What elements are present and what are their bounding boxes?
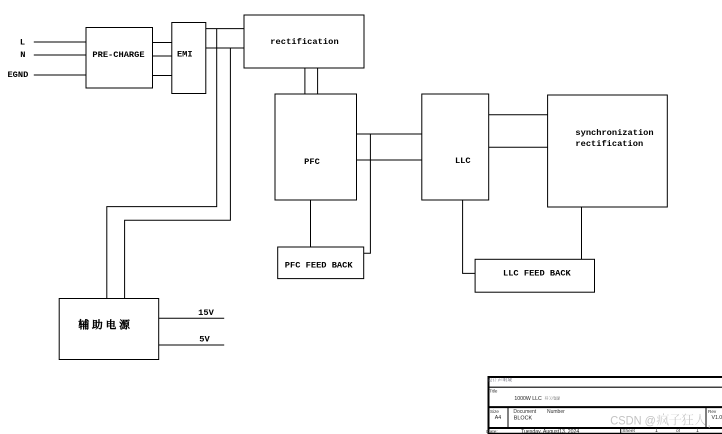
wire PRE-CHARGE to EMI line EGND: [153, 75, 172, 77]
wire PRE-CHARGE to EMI line L: [153, 42, 172, 44]
svg-text:15V: 15V: [198, 308, 214, 318]
svg-text:CSDN @: CSDN @: [610, 413, 656, 427]
svg-text:L: L: [20, 38, 25, 48]
block EMI: [172, 23, 206, 94]
block auxiliary power 辅助电源: [59, 299, 159, 360]
block rectification: [244, 15, 364, 68]
svg-text:Sheet: Sheet: [622, 428, 635, 434]
svg-text:N: N: [20, 50, 25, 60]
svg-text:Tuesday, August13, 2024: Tuesday, August13, 2024: [521, 429, 579, 434]
svg-text:PFC FEED BACK: PFC FEED BACK: [285, 261, 354, 271]
wire LLC to synchronization rectification top: [489, 114, 548, 116]
svg-text:EMI: EMI: [177, 50, 193, 60]
block synchronization rectification: [548, 95, 668, 207]
wire PRE-CHARGE to EMI line N: [153, 55, 172, 57]
svg-text:rectification: rectification: [270, 37, 338, 47]
svg-text:A4: A4: [495, 415, 501, 421]
wire synchronization rectification to LLC FEED BACK: [581, 207, 583, 259]
wire PFC to LLC bottom: [357, 159, 422, 161]
block PRE-CHARGE: [86, 28, 153, 89]
wire rectification to PFC left: [304, 68, 306, 94]
wire LLC bottom to LLC FEED BACK: [463, 200, 476, 273]
svg-text:of: of: [676, 428, 681, 434]
svg-text:Document: Document: [513, 409, 536, 415]
svg-text:synchronization: synchronization: [575, 128, 653, 138]
svg-text:,: ,: [708, 417, 711, 429]
wire 5V output: [159, 344, 225, 346]
svg-text:Size: Size: [490, 409, 499, 414]
wire L input: [34, 41, 86, 43]
title block header text 设计声明域: [488, 378, 512, 382]
title block frame: [488, 377, 722, 434]
wire PFC bottom to PFC FEED BACK: [310, 200, 312, 247]
svg-text:LLC FEED BACK: LLC FEED BACK: [503, 269, 572, 279]
svg-text:5V: 5V: [199, 335, 210, 345]
wire EGND input: [34, 74, 86, 76]
svg-text:Title: Title: [489, 388, 498, 393]
watermark 疯子狂人: [657, 413, 706, 425]
block PFC FEED BACK: [278, 247, 364, 279]
block LLC FEED BACK: [475, 259, 594, 292]
svg-text:PFC: PFC: [304, 157, 320, 167]
svg-text:1: 1: [696, 428, 699, 434]
wire N input: [34, 54, 86, 56]
block PFC: [275, 94, 357, 200]
block LLC: [422, 94, 489, 200]
svg-text:PRE-CHARGE: PRE-CHARGE: [92, 50, 144, 60]
wire 15V output: [159, 317, 225, 319]
svg-text:Number: Number: [547, 409, 565, 415]
svg-text:Rev: Rev: [708, 409, 717, 414]
wire PFC to LLC top: [357, 133, 422, 135]
svg-text:1: 1: [655, 428, 658, 434]
svg-text:EGND: EGND: [7, 70, 28, 80]
wire LLC to synchronization rectification bottom: [489, 146, 548, 148]
svg-text:rectification: rectification: [575, 139, 643, 149]
wire tap1 vertical from AC bus to aux: [107, 29, 217, 299]
svg-text:Date:: Date:: [486, 429, 497, 434]
svg-text:1000W LLC: 1000W LLC: [514, 396, 542, 402]
svg-text:V1.0: V1.0: [712, 415, 722, 421]
wire tap2 vertical from AC bus to aux: [125, 48, 231, 299]
wire PFC bus tap to PFC FEED BACK: [364, 134, 371, 253]
wire EMI to rectification bottom: [206, 47, 244, 49]
wire EMI to rectification top: [206, 28, 244, 30]
wire rectification to PFC right: [317, 68, 319, 94]
svg-text:BLOCK: BLOCK: [514, 415, 533, 421]
svg-text:LLC: LLC: [455, 156, 471, 166]
